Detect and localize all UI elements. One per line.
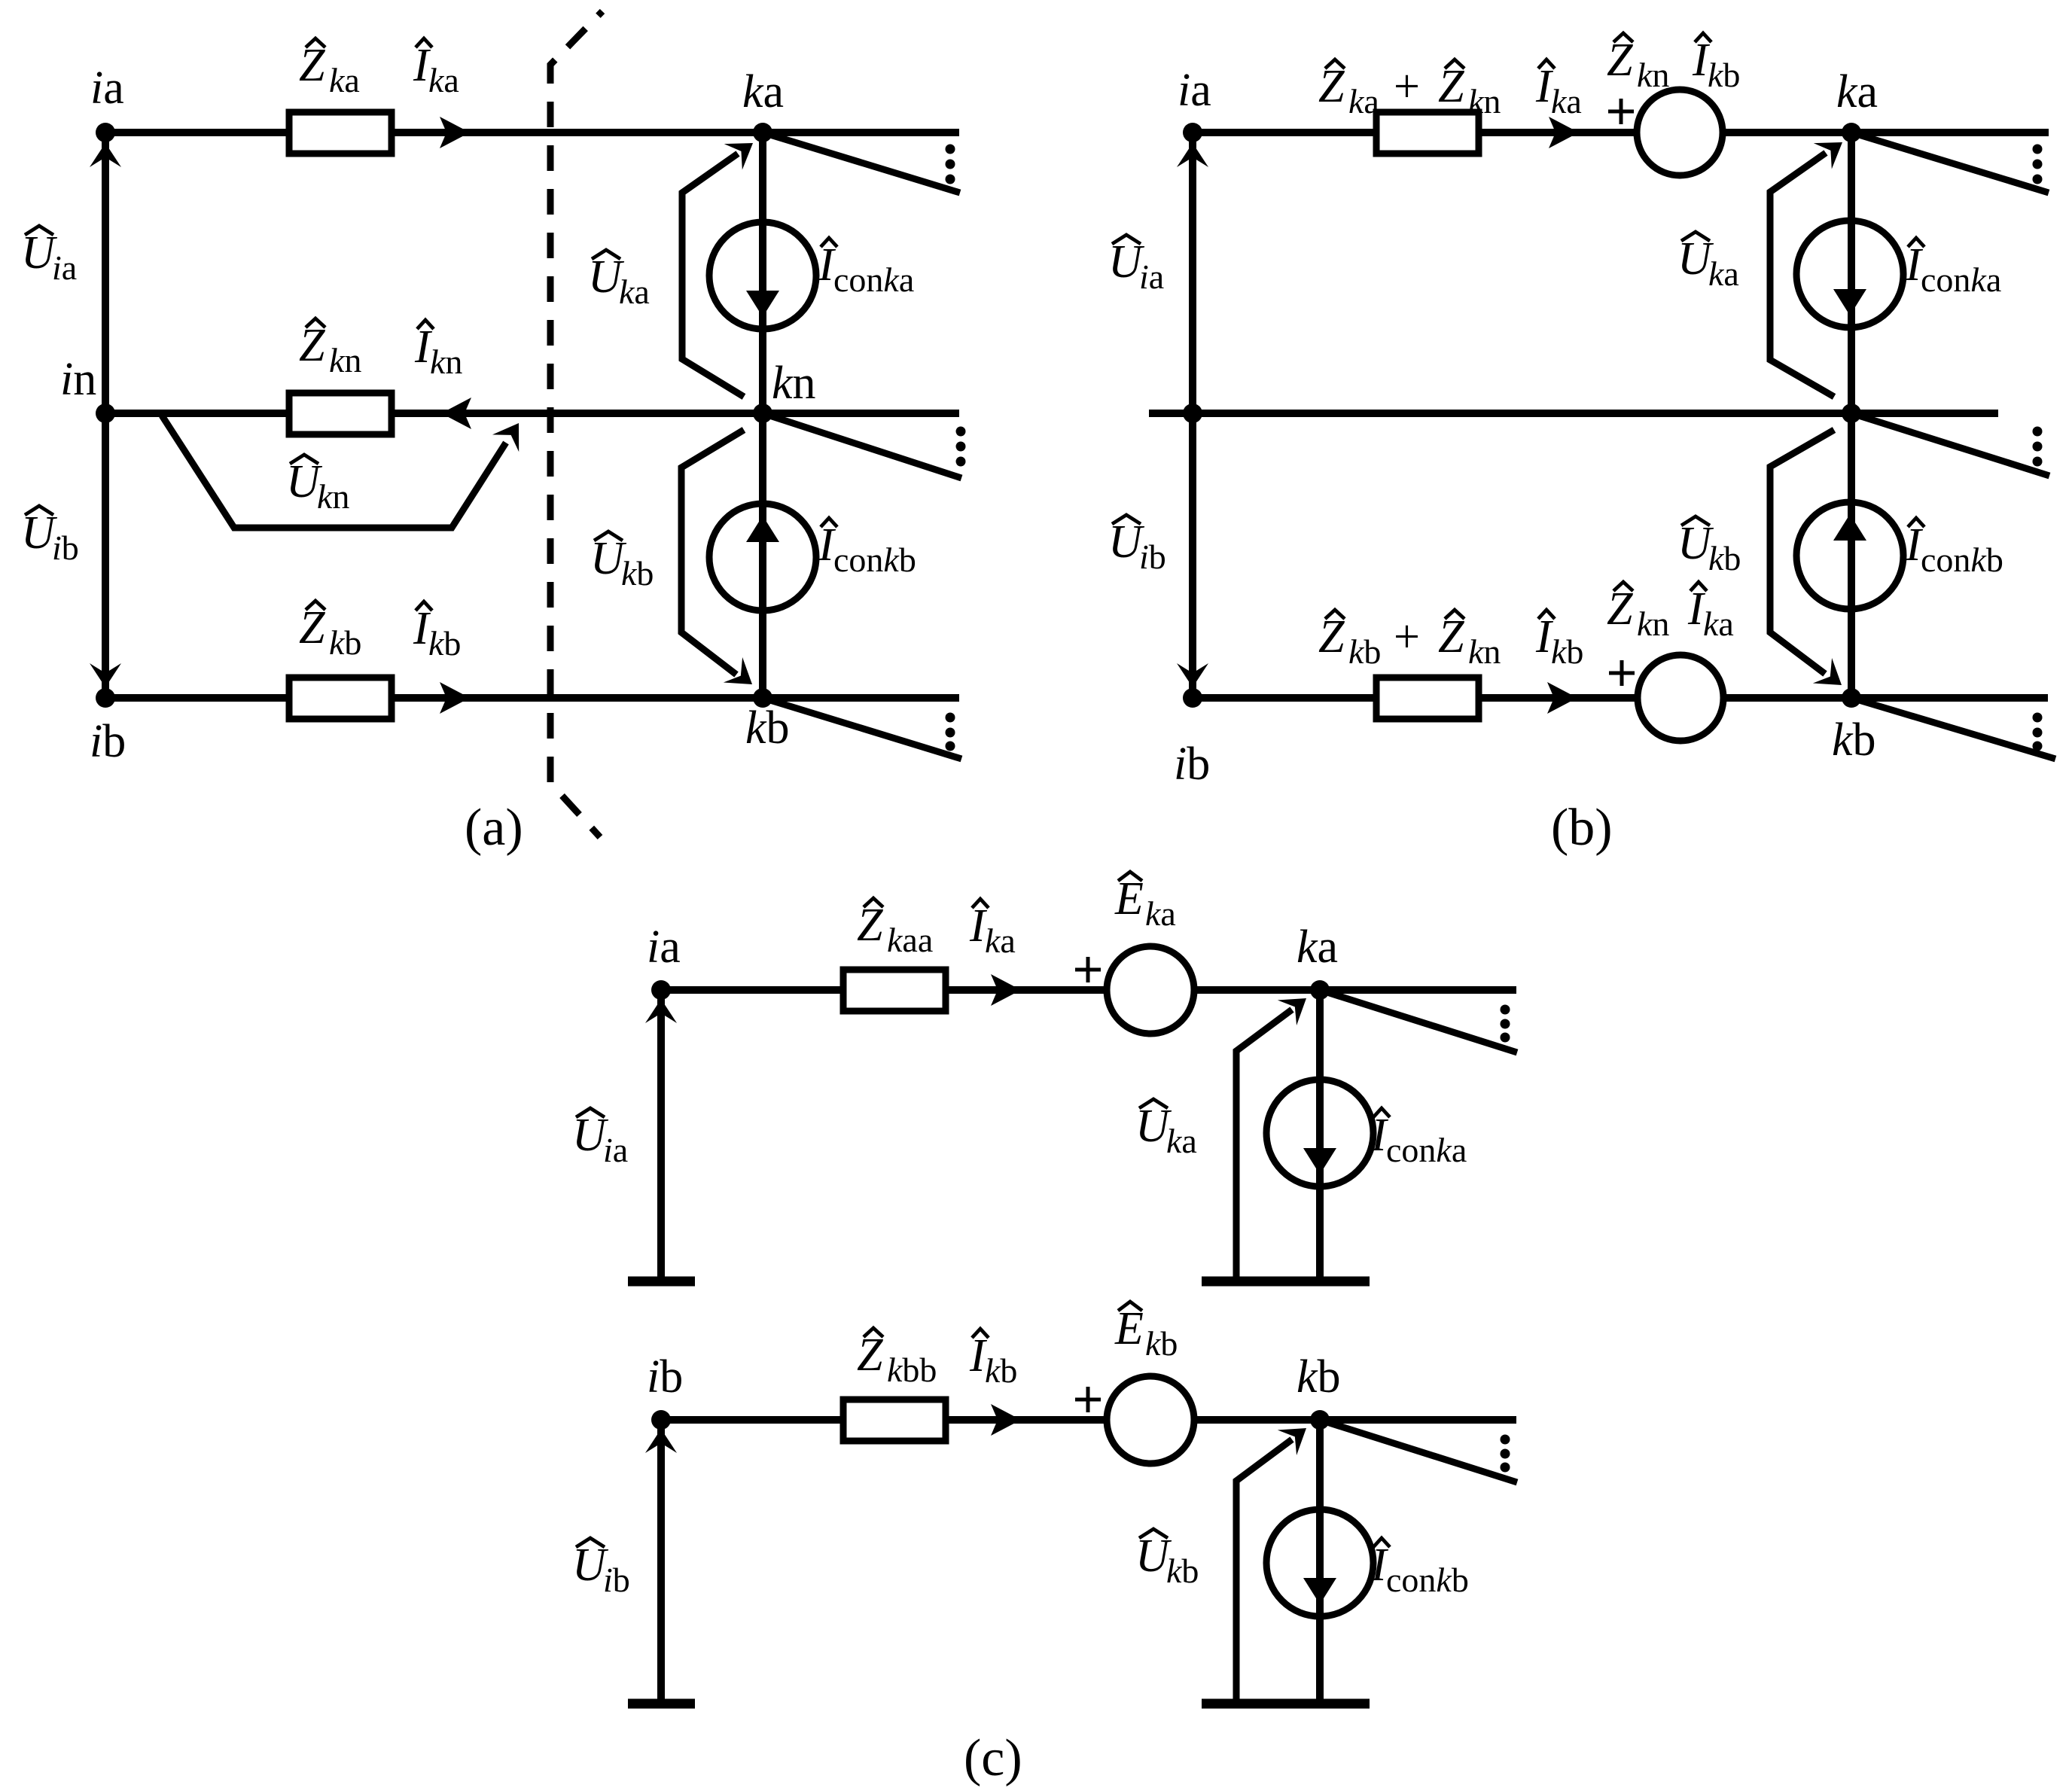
svg-text:kn: kn: [1637, 605, 1669, 643]
svg-text:ka: ka: [428, 61, 459, 99]
svg-text:ib: ib: [90, 716, 126, 767]
svg-text:kb: kb: [1832, 714, 1876, 766]
svg-text:ka: ka: [1145, 894, 1176, 933]
svg-text:ib: ib: [647, 1351, 683, 1403]
svg-text:Z: Z: [1318, 611, 1345, 662]
svg-text:kn: kn: [430, 343, 462, 381]
svg-text:ka: ka: [329, 61, 360, 99]
svg-text:ia: ia: [603, 1131, 628, 1169]
svg-text:in: in: [60, 354, 96, 405]
svg-text:kbb: kbb: [887, 1351, 937, 1389]
svg-text:kb: kb: [1145, 1324, 1178, 1363]
svg-text:ib: ib: [1139, 538, 1166, 576]
svg-text:ka: ka: [742, 66, 784, 117]
svg-text:ka: ka: [1166, 1122, 1197, 1160]
svg-text:Z: Z: [299, 602, 325, 653]
svg-text:kb: kb: [1166, 1552, 1199, 1590]
svg-text:(b): (b): [1551, 799, 1613, 857]
svg-text:Z: Z: [1438, 61, 1464, 112]
svg-text:kb: kb: [1297, 1351, 1341, 1403]
svg-text:ib: ib: [52, 528, 79, 567]
svg-text:Z: Z: [299, 40, 325, 91]
svg-text:+: +: [1394, 61, 1420, 112]
svg-text:kn: kn: [1637, 56, 1669, 94]
svg-text:conkb: conkb: [1386, 1561, 1469, 1599]
svg-text:conka: conka: [833, 260, 914, 299]
svg-text:kn: kn: [1468, 82, 1501, 120]
svg-text:Z: Z: [857, 1330, 883, 1381]
svg-text:ib: ib: [603, 1561, 630, 1599]
svg-text:ia: ia: [1139, 257, 1164, 296]
svg-text:Z: Z: [857, 900, 883, 951]
svg-text:(a): (a): [465, 799, 523, 857]
svg-text:conkb: conkb: [1921, 541, 2003, 579]
svg-text:conkb: conkb: [833, 541, 916, 579]
svg-text:kb: kb: [1348, 632, 1381, 671]
svg-text:ka: ka: [1297, 921, 1338, 973]
svg-text:(c): (c): [964, 1729, 1022, 1787]
svg-text:kb: kb: [1551, 632, 1583, 671]
svg-text:kb: kb: [329, 623, 361, 662]
svg-text:Z: Z: [1438, 611, 1464, 662]
svg-text:kn: kn: [772, 358, 816, 409]
svg-text:+: +: [1394, 611, 1420, 662]
svg-text:ka: ka: [1708, 254, 1739, 293]
svg-text:kb: kb: [621, 554, 654, 592]
svg-text:kb: kb: [1708, 56, 1740, 94]
svg-text:kn: kn: [317, 477, 349, 516]
svg-text:ka: ka: [619, 273, 650, 311]
svg-text:ia: ia: [1178, 65, 1211, 116]
svg-text:ib: ib: [1174, 739, 1210, 790]
svg-text:kn: kn: [1468, 632, 1501, 671]
svg-text:Z: Z: [1607, 35, 1633, 86]
svg-text:ka: ka: [985, 921, 1016, 960]
svg-text:conka: conka: [1921, 260, 2001, 299]
svg-text:Z: Z: [299, 320, 325, 371]
svg-text:kb: kb: [428, 624, 461, 662]
svg-text:kaa: kaa: [887, 921, 933, 959]
svg-text:conka: conka: [1386, 1131, 1467, 1169]
svg-text:ka: ka: [1703, 605, 1734, 643]
svg-text:kb: kb: [745, 702, 790, 754]
svg-text:ka: ka: [1551, 82, 1582, 120]
svg-text:ka: ka: [1348, 82, 1379, 120]
svg-text:ia: ia: [90, 62, 124, 114]
svg-text:kn: kn: [329, 341, 361, 379]
svg-text:ia: ia: [52, 248, 77, 287]
svg-text:Z: Z: [1607, 583, 1633, 635]
svg-text:kb: kb: [1708, 539, 1741, 577]
svg-text:ka: ka: [1836, 66, 1878, 117]
svg-text:Z: Z: [1318, 61, 1345, 112]
svg-text:kb: kb: [985, 1351, 1017, 1390]
svg-text:ia: ia: [647, 921, 681, 973]
